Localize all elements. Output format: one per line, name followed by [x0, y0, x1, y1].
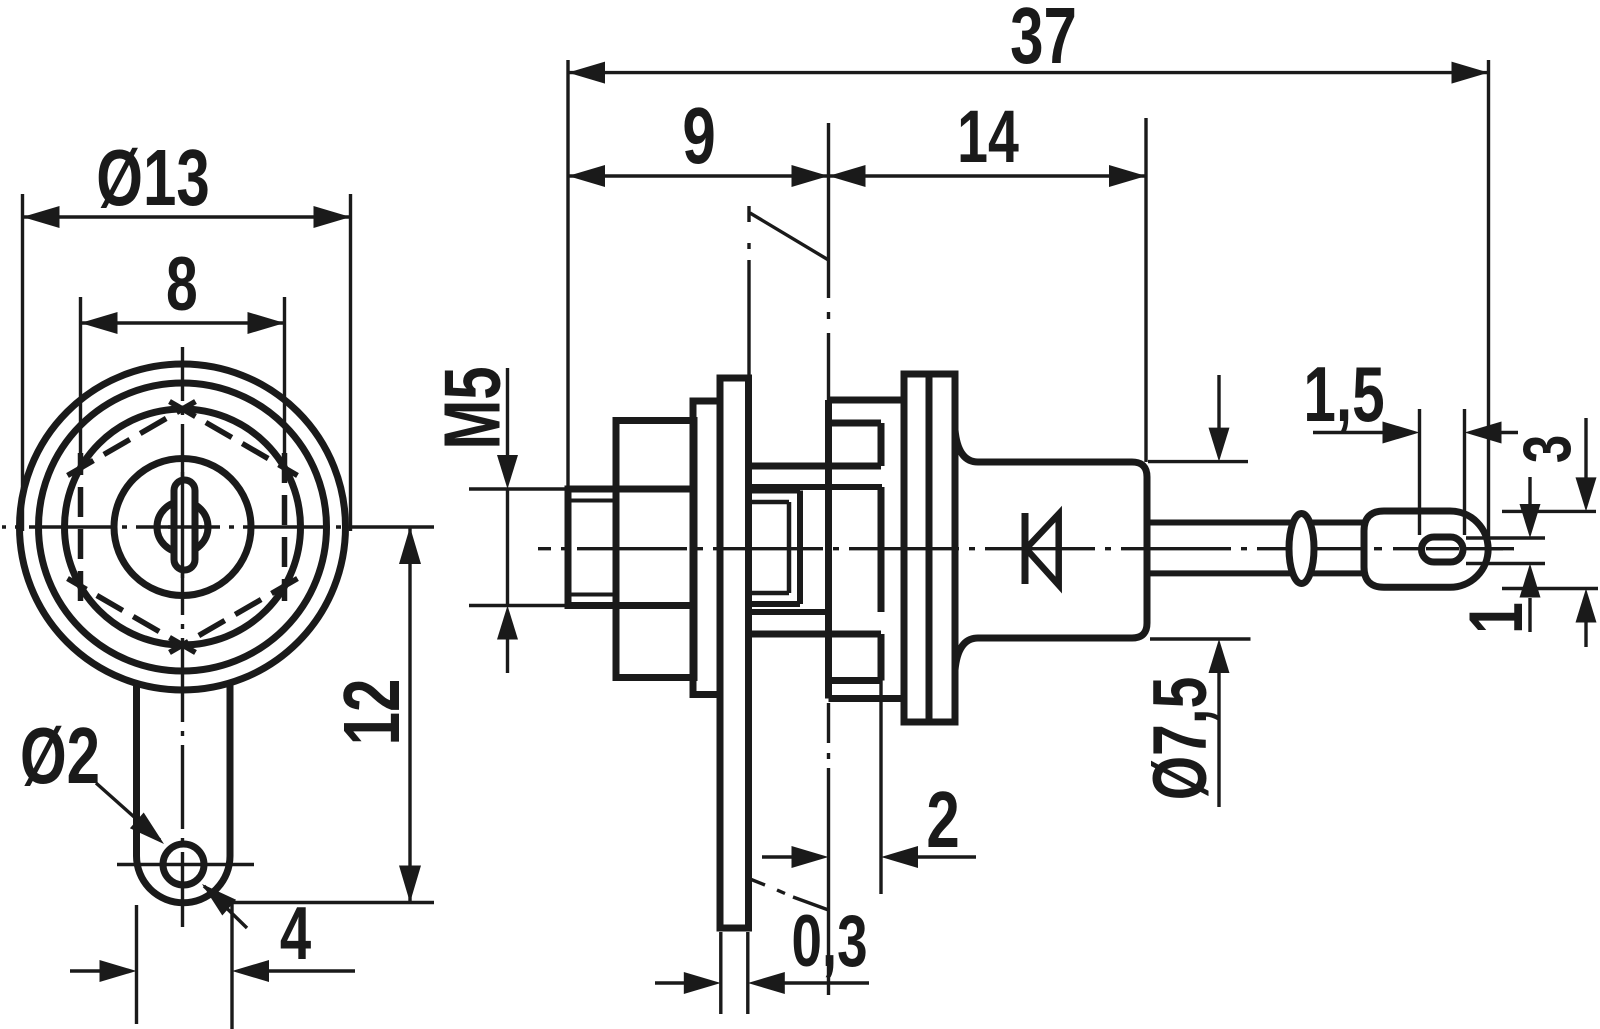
lug hole 2: [163, 844, 204, 885]
dim 0,3 extension right: [746, 932, 749, 1014]
svg-text:Ø7,5: Ø7,5: [1138, 677, 1223, 801]
eyelet terminal outline: [1364, 511, 1488, 587]
solder lug bottom arc: [137, 856, 231, 903]
dim 13 extension left: [21, 194, 24, 531]
thread minor bottom (behind bush): [749, 591, 790, 596]
dim 13 extension right: [349, 194, 352, 531]
svg-text:37: 37: [1010, 0, 1077, 80]
centerline through slot vertical: [181, 472, 184, 578]
dim 1 line lower: [1528, 598, 1531, 632]
dim 14 line: [829, 174, 1147, 177]
svg-text:0,3: 0,3: [791, 900, 867, 981]
dim 4 arrow left: [100, 960, 137, 982]
dim 4 label: [280, 892, 311, 976]
dim 12 extension bottom: [232, 901, 434, 904]
solder lug left edge (front view): [133, 681, 140, 856]
svg-text:M5: M5: [427, 366, 516, 449]
dim 4 extension right: [230, 903, 233, 1029]
dim 9 arrow left: [568, 165, 605, 187]
dim 7,5 extension top: [1148, 460, 1248, 463]
dim 0,3 extension left: [719, 932, 722, 1014]
dim 3 arrow lower: [1576, 589, 1597, 623]
thread minor top (behind bush): [749, 500, 790, 505]
svg-text:3: 3: [1509, 435, 1585, 463]
dim 7,5 line upper: [1217, 375, 1220, 428]
svg-text:Ø2: Ø2: [20, 711, 100, 800]
svg-text:Ø13: Ø13: [96, 133, 209, 222]
svg-text:1,5: 1,5: [1303, 351, 1384, 438]
washer (side view): [693, 401, 720, 695]
flange rim top edge: [829, 397, 905, 404]
dim 13 line: [23, 215, 351, 218]
flange disc front: [904, 374, 929, 722]
centerline through eyelet: [1374, 547, 1514, 550]
dim 9 arrow right: [792, 165, 829, 187]
dim 9 label: [682, 91, 715, 180]
dim 12 label: [327, 679, 416, 746]
dim 7,5 arrow upper: [1209, 428, 1230, 462]
dim 8 extension left: [79, 297, 82, 466]
hub top edge: [750, 484, 882, 490]
dim 0,3 arrow left: [684, 972, 721, 994]
dim 1,5 arrow left: [1383, 422, 1420, 444]
flange outer circle 13: [20, 364, 346, 690]
flange ear bottom edge: [829, 677, 882, 684]
stud M5 outline: [568, 489, 616, 606]
dim 1 extension top: [1466, 536, 1545, 539]
stud end circle: [114, 459, 251, 596]
svg-text:8: 8: [166, 242, 198, 327]
dim 2 label: [926, 775, 959, 864]
dim 4 arrow right: [232, 960, 269, 982]
dim 1,5 line right: [1500, 431, 1518, 434]
diode triangle: [1026, 514, 1059, 585]
dim 13 label: [96, 133, 209, 222]
dim 3 line upper: [1584, 418, 1587, 478]
lug hole centerline: [117, 863, 254, 866]
dim 37 extension right: [1487, 60, 1490, 540]
flange step right edge: [878, 423, 885, 681]
solder lug right edge (front view): [227, 683, 234, 856]
dim 14 arrow left: [829, 165, 866, 187]
dim 37 extension left / stud edge extension: [566, 60, 569, 489]
dim 3 label: [1509, 435, 1585, 463]
flange rim bottom edge: [829, 695, 905, 702]
stud thread minor line top: [568, 499, 616, 503]
dim 0,3 line left: [655, 981, 684, 984]
dim 2 arrow right: [881, 846, 918, 868]
dim 2 line right: [917, 855, 976, 858]
dim 37 arrow right: [1452, 62, 1489, 84]
dim 13 arrow left: [23, 206, 60, 228]
screwdriver slot: [174, 480, 195, 570]
dim 3 arrow upper: [1576, 477, 1597, 511]
flange disc rear: [929, 374, 955, 722]
dim M5 line lower: [506, 639, 509, 673]
bush bottom edge: [749, 631, 882, 638]
stud silhouette through nut top: [616, 486, 694, 493]
dim 9 line: [568, 174, 829, 177]
svg-text:9: 9: [682, 91, 715, 180]
dim 7,5 extension bottom: [1150, 637, 1251, 640]
dim 2 leader line upper: [96, 783, 160, 840]
dim 1,5 extension left: [1418, 409, 1421, 535]
hex nut hidden outline (dashed): [68, 402, 298, 653]
dim 14 arrow right: [1109, 165, 1146, 187]
dim 1,5 label: [1303, 351, 1384, 438]
dim 37 label: [1010, 0, 1077, 80]
mounting plane centerline upper: [827, 123, 830, 400]
dim 1 arrow upper: [1520, 504, 1541, 538]
dim 8 line: [81, 321, 285, 324]
svg-text:12: 12: [327, 679, 416, 746]
bush top edge: [749, 463, 882, 470]
solder lug (side view): [720, 378, 749, 928]
diode cathode bar: [1022, 513, 1029, 584]
svg-text:1: 1: [1454, 602, 1539, 634]
washer circle: [39, 383, 327, 671]
centerline vertical (front view): [181, 347, 184, 927]
dim M5 extension top: [469, 487, 568, 490]
dim M5 arrow lower: [497, 606, 518, 640]
body outline: [955, 430, 1147, 670]
dim 2 arrow upper: [130, 813, 164, 845]
dim 1 arrow lower: [1520, 564, 1541, 598]
dim M5 arrow upper: [497, 455, 518, 489]
stud boss circle: [157, 502, 208, 553]
dim 2 arrow lower: [202, 884, 236, 916]
section diagonal lower: [750, 879, 829, 910]
dim 0,3 arrow right: [748, 972, 785, 994]
thread major bottom (behind bush): [749, 601, 801, 607]
dim 2 leader line lower: [204, 886, 247, 928]
dim 12 line: [408, 527, 411, 903]
dim 13 arrow right: [314, 206, 351, 228]
lead wire bottom edge: [1147, 570, 1367, 576]
dim 4 line left: [70, 969, 100, 972]
dim M5 line middle: [506, 489, 509, 606]
centerline horizontal (side view): [538, 547, 1514, 550]
dim 8 arrow left: [81, 312, 118, 334]
flange ear top edge: [829, 420, 882, 427]
dim 1,5 extension right: [1463, 409, 1466, 535]
dim 2 arrow left: [792, 846, 829, 868]
svg-text:2: 2: [926, 775, 959, 864]
dim 12 arrow top: [399, 527, 421, 564]
dim 8 label: [166, 242, 198, 327]
thread minor end line: [787, 502, 792, 593]
mounting plane centerline lower: [827, 703, 830, 995]
stud thread minor line bottom: [568, 593, 616, 597]
dim 7,5 arrow lower: [1209, 639, 1230, 673]
flange rim left edge: [825, 400, 832, 699]
dim 12 arrow bottom: [399, 866, 421, 903]
dim 1 label: [1454, 602, 1539, 634]
dim 2 extension right: [879, 681, 882, 895]
dim 1 extension bottom: [1466, 562, 1545, 565]
dim 7,5 label: [1138, 677, 1223, 801]
svg-text:14: 14: [957, 95, 1019, 178]
dim M5 extension bottom: [469, 604, 568, 607]
hub bottom edge: [749, 609, 828, 615]
dim 3 extension top: [1502, 510, 1596, 513]
dim 3 extension bottom: [1502, 587, 1598, 590]
dim 37 arrow left: [568, 62, 605, 84]
dim 1 line upper: [1528, 477, 1531, 505]
dim 3 line lower: [1584, 622, 1587, 647]
dim 1,5 line left: [1313, 431, 1385, 434]
dim 14 extension right: [1144, 118, 1147, 462]
dim 7,5 line lower: [1217, 672, 1220, 807]
glass bead: [1289, 514, 1314, 584]
dim 4 line right: [268, 969, 355, 972]
stud silhouette through nut bottom: [616, 602, 694, 609]
eyelet hole: [1422, 537, 1464, 562]
dim 14 label: [957, 95, 1019, 178]
lug section trace upper: [747, 206, 750, 376]
nut circumscribed circle: [65, 409, 301, 645]
dim 2 label: [20, 711, 100, 800]
svg-text:4: 4: [280, 892, 311, 976]
hex nut (side view): [616, 421, 694, 678]
dim 8 extension right: [283, 297, 286, 466]
thread major top (behind bush): [749, 488, 801, 494]
dim 0,3 line right: [784, 981, 869, 984]
centerline horizontal (front view): [2, 525, 434, 528]
dim 2 line left: [762, 855, 792, 858]
section diagonal upper: [750, 213, 829, 260]
dim 1,5 arrow right: [1465, 422, 1502, 444]
dim M5 line upper: [506, 368, 509, 455]
thread end line: [797, 491, 803, 605]
dim 37 line: [568, 71, 1489, 74]
dim M5 label: [427, 366, 516, 449]
dim 4 extension left: [135, 905, 138, 1024]
dim 8 arrow right: [248, 312, 285, 334]
dim 0,3 label: [791, 900, 867, 981]
centerline through slot horizontal: [168, 525, 202, 528]
lead wire top edge: [1147, 520, 1367, 526]
